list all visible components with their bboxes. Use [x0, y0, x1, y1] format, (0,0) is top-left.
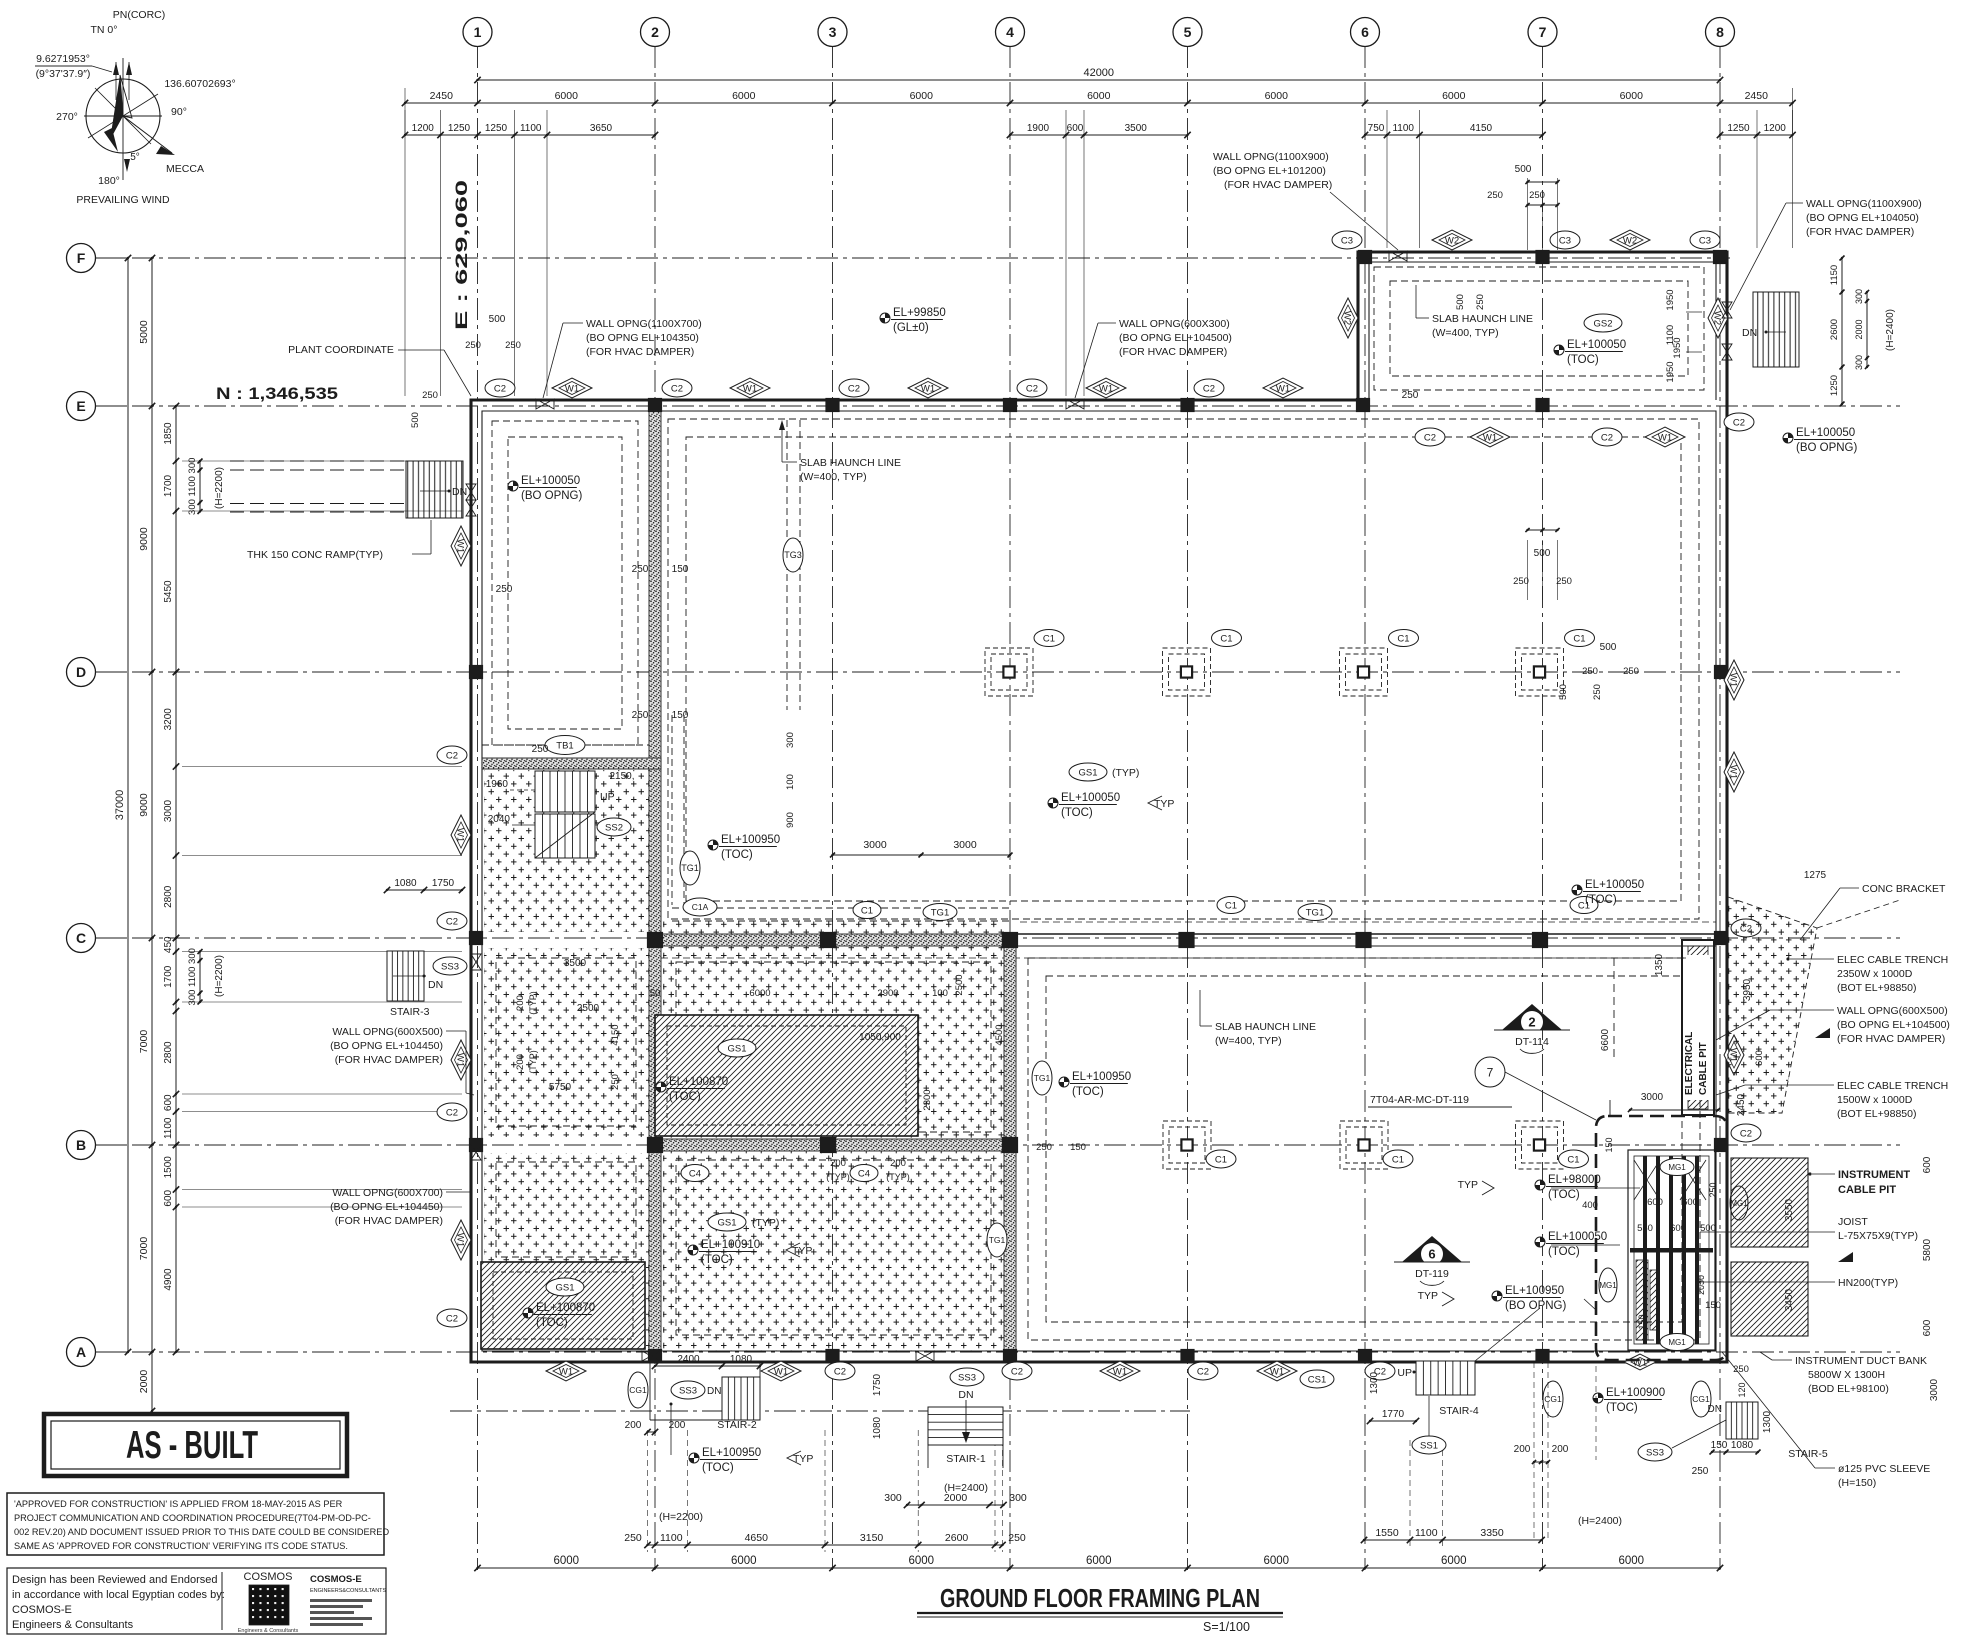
- bottom stair-1 dims 300 2000 300: [907, 1504, 1004, 1506]
- C2 and W1 labels bottom wall: [825, 1362, 855, 1380]
- svg-text:1100: 1100: [187, 476, 198, 496]
- EL+100050 TOC typ hall: [1048, 792, 1174, 819]
- instrument cable pit outline: [1596, 1116, 1727, 1360]
- svg-text:AS - BUILT: AS - BUILT: [126, 1424, 258, 1467]
- elec cable trench label 1: [1786, 954, 1948, 994]
- slab haunch outline GS2 room: [1374, 267, 1704, 390]
- slab haunch outline lower hall: [1028, 958, 1700, 1340]
- svg-text:90°: 90°: [171, 106, 187, 118]
- svg-text:EL+100050: EL+100050: [1567, 339, 1626, 351]
- wall columns GS2 room: [1359, 251, 1372, 264]
- svg-text:C1A: C1A: [692, 902, 709, 912]
- svg-text:100: 100: [785, 774, 796, 790]
- svg-text:150: 150: [672, 564, 689, 575]
- svg-text:DN: DN: [1742, 327, 1757, 339]
- svg-text:200: 200: [515, 1054, 526, 1070]
- svg-text:(TOC): (TOC): [1567, 354, 1599, 366]
- svg-text:1: 1: [474, 24, 482, 40]
- svg-text:DT-119: DT-119: [1415, 1268, 1449, 1280]
- svg-text:1100: 1100: [163, 1117, 174, 1139]
- svg-text:600: 600: [163, 1094, 174, 1111]
- EL+98000 TOC pit: [1458, 1174, 1640, 1210]
- svg-text:1750: 1750: [432, 878, 455, 889]
- EL+100050 TOC GS2 room: [1554, 345, 1564, 355]
- svg-text:600: 600: [1682, 1197, 1698, 1208]
- svg-text:300: 300: [187, 948, 198, 964]
- svg-text:C3: C3: [1559, 235, 1571, 246]
- svg-text:6000: 6000: [1442, 90, 1466, 102]
- svg-text:Design has been Reviewed and E: Design has been Reviewed and Endorsed: [12, 1574, 217, 1586]
- svg-text:600: 600: [1922, 1319, 1933, 1336]
- EL+100950 TOC bottom stair2: [670, 1403, 814, 1475]
- elec cable trench label 2: [1716, 1080, 1948, 1120]
- EL+100950 BO OPNG pit: [1418, 1285, 1596, 1312]
- svg-text:EL+100910: EL+100910: [701, 1239, 760, 1251]
- svg-text:(TYP): (TYP): [528, 991, 538, 1015]
- svg-text:SLAB HAUNCH LINE: SLAB HAUNCH LINE: [800, 457, 901, 469]
- svg-text:CABLE PIT: CABLE PIT: [1698, 1042, 1709, 1095]
- slab haunch outline left room: [492, 421, 638, 745]
- left sub-dimension chain B-A: [175, 1145, 177, 1352]
- C2 and W1 labels row E right: [1415, 428, 1445, 446]
- svg-text:150: 150: [1604, 1137, 1614, 1152]
- svg-text:200: 200: [1514, 1444, 1531, 1455]
- svg-text:300: 300: [785, 732, 796, 748]
- instrument pit right hatched blocks: [1731, 1158, 1808, 1336]
- svg-text:300: 300: [1854, 355, 1864, 370]
- svg-text:1900: 1900: [1027, 123, 1050, 134]
- svg-text:W2: W2: [1623, 235, 1637, 246]
- svg-text:TG1: TG1: [1034, 1073, 1051, 1083]
- svg-text:6000: 6000: [1265, 90, 1289, 102]
- svg-text:(TOC): (TOC): [1061, 807, 1093, 819]
- svg-text:(H=150): (H=150): [1838, 1477, 1876, 1489]
- svg-text:2450: 2450: [430, 90, 454, 102]
- svg-text:EL+100870: EL+100870: [536, 1302, 595, 1314]
- svg-text:2600: 2600: [1829, 319, 1840, 340]
- svg-text:B: B: [76, 1137, 86, 1153]
- svg-text:(BO OPNG EL+104050): (BO OPNG EL+104050): [1806, 212, 1919, 224]
- svg-text:6000: 6000: [749, 988, 770, 999]
- svg-text:250: 250: [496, 584, 513, 595]
- svg-text:TYP: TYP: [792, 1245, 812, 1257]
- svg-text:(TOC): (TOC): [702, 1462, 734, 1474]
- slab haunch line label GS2: [1416, 285, 1533, 339]
- svg-text:6000: 6000: [1441, 1555, 1467, 1567]
- internal wall on column 4: [1004, 944, 1016, 1351]
- svg-text:1200: 1200: [412, 123, 435, 134]
- svg-text:500: 500: [1558, 684, 1569, 700]
- svg-text:W1: W1: [455, 1053, 466, 1067]
- svg-text:1080: 1080: [394, 878, 417, 889]
- svg-text:250: 250: [1529, 190, 1545, 201]
- svg-text:(TOC): (TOC): [536, 1317, 568, 1329]
- svg-text:'APPROVED FOR CONSTRUCTION': 'APPROVED FOR CONSTRUCTION' IS APPLIED F…: [14, 1499, 343, 1509]
- svg-text:C: C: [76, 930, 86, 946]
- svg-text:150: 150: [1711, 1440, 1728, 1451]
- svg-text:SAME AS 'APPROVED FOR CONS: SAME AS 'APPROVED FOR CONSTRUCTION' VERI…: [14, 1541, 348, 1551]
- svg-text:450: 450: [163, 936, 174, 953]
- svg-text:W1: W1: [1270, 1366, 1284, 1377]
- svg-text:W1: W1: [455, 828, 466, 842]
- instrument pit MG1 labels: [1660, 1159, 1694, 1176]
- svg-text:250: 250: [1733, 1364, 1749, 1375]
- svg-text:THK 150 CONC RAMP(TYP): THK 150 CONC RAMP(TYP): [247, 549, 383, 561]
- svg-text:400: 400: [1582, 1200, 1598, 1211]
- svg-text:3200: 3200: [163, 708, 174, 731]
- svg-text:2: 2: [651, 24, 659, 40]
- top sub-dimension chain left: [405, 134, 655, 136]
- svg-text:DT-114: DT-114: [1515, 1036, 1549, 1048]
- svg-text:1950: 1950: [1672, 337, 1683, 358]
- svg-text:1100: 1100: [187, 967, 198, 987]
- svg-text:W2: W2: [1445, 235, 1459, 246]
- svg-text:1770: 1770: [1382, 1409, 1405, 1420]
- svg-text:(TOC): (TOC): [1606, 1402, 1638, 1414]
- svg-text:3: 3: [829, 24, 837, 40]
- drawing title: [917, 1583, 1283, 1634]
- svg-text:5450: 5450: [163, 580, 174, 603]
- svg-text:W1: W1: [565, 383, 579, 394]
- svg-text:C2: C2: [1026, 383, 1038, 394]
- svg-text:3000: 3000: [163, 799, 174, 822]
- svg-text:3000: 3000: [1929, 1378, 1940, 1401]
- EL+100050 BO OPNG left room: [508, 481, 518, 491]
- svg-text:SS2: SS2: [605, 822, 623, 833]
- svg-text:4500: 4500: [994, 1024, 1005, 1045]
- svg-text:600: 600: [1647, 1197, 1663, 1208]
- stair-3 exterior left: [384, 878, 467, 1018]
- svg-text:(BOT EL+98850): (BOT EL+98850): [1837, 1108, 1916, 1120]
- svg-text:5750: 5750: [549, 1082, 572, 1093]
- svg-text:250: 250: [1592, 684, 1603, 700]
- column grid bubbles 1-8: [463, 18, 1735, 47]
- svg-text:3000: 3000: [1641, 1092, 1664, 1103]
- svg-text:COSMOS-E: COSMOS-E: [12, 1604, 72, 1616]
- svg-text:200: 200: [625, 1420, 642, 1431]
- svg-text:(FOR HVAC DAMPER): (FOR HVAC DAMPER): [1806, 226, 1914, 238]
- svg-text:SS3: SS3: [958, 1372, 976, 1383]
- svg-text:002 REV.20) AND DOCUMENT I: 002 REV.20) AND DOCUMENT ISSUED PRIOR TO…: [14, 1527, 389, 1537]
- svg-text:7000: 7000: [138, 1237, 150, 1261]
- svg-text:W1: W1: [743, 383, 757, 394]
- svg-text:(9°37'37.9″): (9°37'37.9″): [36, 68, 91, 80]
- svg-text:C2: C2: [834, 1366, 846, 1377]
- svg-text:250: 250: [1708, 1182, 1718, 1197]
- svg-text:C4: C4: [858, 1168, 870, 1179]
- svg-text:DN: DN: [428, 979, 443, 991]
- svg-text:200: 200: [1552, 1444, 1569, 1455]
- TB1 beam dashed line: [482, 744, 661, 746]
- GS2 room inner wall line: [1369, 262, 1716, 400]
- svg-text:1200: 1200: [1764, 123, 1787, 134]
- svg-text:2050: 2050: [1696, 1275, 1706, 1295]
- svg-text:TYP: TYP: [793, 1453, 813, 1465]
- svg-text:500: 500: [1600, 642, 1617, 653]
- svg-text:EL+100050: EL+100050: [1796, 427, 1855, 439]
- svg-text:EL+100050: EL+100050: [1585, 879, 1644, 891]
- svg-text:GS1: GS1: [555, 1282, 574, 1293]
- svg-text:(TOC): (TOC): [701, 1254, 733, 1266]
- svg-text:250: 250: [532, 744, 549, 755]
- svg-text:4900: 4900: [163, 1268, 174, 1291]
- svg-text:2000: 2000: [138, 1370, 150, 1394]
- svg-text:CG1: CG1: [1544, 1394, 1562, 1404]
- building inner wall line: [482, 411, 1716, 1351]
- left sub-dimension chain D-C: [175, 672, 177, 938]
- svg-text:3150: 3150: [860, 1532, 884, 1544]
- svg-text:1300: 1300: [1369, 1371, 1380, 1394]
- svg-text:600: 600: [1922, 1156, 1933, 1173]
- stair-1 exterior bottom: [872, 1368, 1003, 1468]
- svg-text:MG1: MG1: [1599, 1281, 1617, 1290]
- wall columns left wall: [470, 666, 483, 679]
- concrete ramp top-left: [230, 461, 467, 518]
- stair-4 exterior bottom right: [1367, 1308, 1540, 1454]
- svg-text:TG1: TG1: [1306, 907, 1324, 918]
- svg-text:(H=2400): (H=2400): [944, 1482, 988, 1494]
- wall opng label far right 1100x900: [1730, 198, 1922, 310]
- svg-text:WALL OPNG(1100X900): WALL OPNG(1100X900): [1213, 151, 1329, 163]
- C1 labels row D: [1034, 630, 1064, 647]
- svg-text:W1: W1: [1728, 765, 1739, 779]
- svg-text:6600: 6600: [1600, 1028, 1611, 1051]
- svg-text:C1: C1: [861, 905, 873, 916]
- svg-text:2040: 2040: [488, 814, 511, 825]
- svg-text:2300: 2300: [922, 1089, 933, 1110]
- svg-text:WALL OPNG(1100X700): WALL OPNG(1100X700): [586, 318, 702, 330]
- svg-text:250: 250: [632, 564, 649, 575]
- svg-text:MECCA: MECCA: [166, 163, 204, 175]
- svg-text:300: 300: [884, 1492, 902, 1504]
- EL+100050 TOC pit: [1535, 1231, 1620, 1258]
- svg-text:W1: W1: [1658, 432, 1672, 443]
- svg-text:2450: 2450: [1736, 1093, 1747, 1116]
- plus-hatch floor area central: [663, 920, 1004, 1351]
- svg-text:JOIST: JOIST: [1838, 1216, 1868, 1228]
- svg-text:270°: 270°: [56, 111, 78, 123]
- svg-text:5000: 5000: [138, 320, 150, 344]
- svg-text:9.6271953°: 9.6271953°: [36, 53, 90, 65]
- svg-text:W1: W1: [559, 1366, 573, 1377]
- svg-text:5800W X 1300H: 5800W X 1300H: [1808, 1369, 1885, 1381]
- svg-text:(TYP): (TYP): [886, 1172, 910, 1182]
- dashed slab edges inside hatch: [496, 958, 636, 1126]
- svg-text:6000: 6000: [1618, 1555, 1644, 1567]
- svg-text:TG1: TG1: [989, 1235, 1006, 1245]
- svg-text:TYP: TYP: [1154, 798, 1174, 810]
- svg-text:E : 629,060: E : 629,060: [453, 180, 471, 330]
- left overall dimension 37000: [127, 258, 129, 1352]
- svg-text:5: 5: [1184, 24, 1192, 40]
- svg-text:(H=2400): (H=2400): [1578, 1515, 1622, 1527]
- svg-text:EL+100870: EL+100870: [669, 1076, 728, 1088]
- svg-text:1275: 1275: [1804, 870, 1827, 881]
- free columns C1 row B: [1163, 1121, 1211, 1169]
- svg-text:200: 200: [515, 995, 526, 1011]
- svg-text:DN: DN: [452, 486, 467, 498]
- svg-text:5800: 5800: [1922, 1238, 1933, 1261]
- svg-text:STAIR-1: STAIR-1: [946, 1453, 986, 1465]
- row C haunch dashed lines: [1020, 921, 1716, 923]
- svg-text:6000: 6000: [1086, 1555, 1112, 1567]
- misc interior dims: [410, 164, 1827, 1257]
- internal wall on column 2: [649, 411, 661, 1362]
- svg-text:2150,: 2150,: [609, 771, 634, 782]
- svg-text:600: 600: [163, 1189, 174, 1206]
- svg-text:SS3: SS3: [679, 1385, 697, 1396]
- svg-text:(BO OPNG EL+104350): (BO OPNG EL+104350): [586, 332, 699, 344]
- svg-text:1350: 1350: [1654, 953, 1665, 976]
- svg-text:C2: C2: [1203, 383, 1215, 394]
- detail callout 7T04-AR-MC-DT-119: [1368, 1057, 1596, 1120]
- svg-text:3950: 3950: [1742, 978, 1753, 1001]
- svg-text:37000: 37000: [114, 790, 126, 821]
- vertical grid lines columns 1-8: [478, 46, 1721, 1570]
- svg-text:C2: C2: [1740, 1128, 1752, 1139]
- EL+100950 TOC near SS2: [708, 840, 718, 850]
- svg-text:UP: UP: [1397, 1367, 1412, 1379]
- svg-text:C3: C3: [1341, 235, 1353, 246]
- GS1 slab panel lower-left (hatched): [481, 1262, 645, 1349]
- svg-text:2800: 2800: [163, 885, 174, 908]
- wall opng label top left: [543, 318, 702, 398]
- svg-text:ELECTRICAL: ELECTRICAL: [1684, 1032, 1695, 1095]
- svg-text:750: 750: [1368, 123, 1385, 134]
- internal wall under TB1: [482, 758, 661, 769]
- svg-text:E: E: [76, 398, 85, 414]
- svg-text:2600: 2600: [945, 1532, 969, 1544]
- horizontal beam TG1 dashed row: [672, 907, 1010, 909]
- svg-text:6: 6: [1428, 1247, 1435, 1262]
- instrument pit joists: [1630, 1156, 1713, 1344]
- svg-text:W1: W1: [1113, 1366, 1127, 1377]
- svg-text:1250: 1250: [1829, 375, 1840, 396]
- internal wall row C: [649, 934, 1016, 946]
- svg-text:WALL OPNG(600X300): WALL OPNG(600X300): [1119, 318, 1230, 330]
- svg-text:C1: C1: [1567, 1154, 1579, 1165]
- svg-text:MG1: MG1: [1668, 1163, 1686, 1172]
- svg-text:A: A: [76, 1344, 86, 1360]
- svg-text:(TOC): (TOC): [1585, 894, 1617, 906]
- svg-text:TG3: TG3: [784, 550, 802, 560]
- C2 and W labels right wall: [1731, 919, 1761, 937]
- svg-text:ENGINEERS&CONSULTANTS: ENGINEERS&CONSULTANTS: [310, 1588, 387, 1594]
- svg-text:250: 250: [632, 710, 649, 721]
- svg-text:180°: 180°: [98, 175, 120, 187]
- EL+100050 TOC top right: [1572, 885, 1582, 895]
- svg-text:(BO OPNG): (BO OPNG): [521, 490, 583, 502]
- wall opng label top right 1100x900: [1213, 151, 1398, 250]
- pvc sleeve label: [1722, 1352, 1930, 1489]
- svg-text:42000: 42000: [1083, 67, 1114, 79]
- svg-text:DN: DN: [958, 1389, 973, 1401]
- svg-text:(W=400, TYP): (W=400, TYP): [1432, 327, 1499, 339]
- svg-text:(H=2400): (H=2400): [1885, 309, 1896, 351]
- svg-text:W1: W1: [1728, 673, 1739, 687]
- svg-text:550: 550: [1637, 1223, 1653, 1234]
- pit leader route dashed: [1580, 953, 1665, 1145]
- svg-text:C2: C2: [446, 1313, 458, 1324]
- svg-text:1080: 1080: [872, 1416, 883, 1439]
- bottom dimension witness lines: [648, 1430, 1443, 1552]
- svg-text:WALL OPNG(600X500): WALL OPNG(600X500): [332, 1026, 443, 1038]
- svg-text:(BO OPNG EL+104450): (BO OPNG EL+104450): [330, 1040, 443, 1052]
- top sub-dimension chain far right: [1720, 134, 1793, 136]
- svg-text:COSMOS-E: COSMOS-E: [310, 1574, 362, 1585]
- svg-text:600: 600: [1670, 1223, 1686, 1234]
- svg-text:TYP: TYP: [1418, 1290, 1438, 1302]
- svg-text:1700: 1700: [163, 474, 174, 497]
- svg-text:1700: 1700: [163, 965, 174, 988]
- svg-text:ELEC CABLE TRENCH: ELEC CABLE TRENCH: [1837, 954, 1948, 966]
- left stair-3 detail dims: [199, 952, 201, 1003]
- svg-text:(H=2200): (H=2200): [214, 955, 225, 997]
- svg-text:250: 250: [1556, 576, 1572, 587]
- svg-text:(W=400, TYP): (W=400, TYP): [800, 471, 867, 483]
- svg-text:1950: 1950: [1665, 289, 1676, 310]
- svg-text:C2: C2: [671, 383, 683, 394]
- wall opng label right 600x500: [1716, 1005, 1950, 1045]
- svg-text:in accordance with local Egypt: in accordance with local Egyptian codes …: [12, 1589, 225, 1601]
- svg-text:C2: C2: [446, 750, 458, 761]
- svg-text:136.60702693°: 136.60702693°: [164, 78, 235, 90]
- svg-text:SS1: SS1: [1420, 1440, 1438, 1451]
- svg-text:C3: C3: [1699, 235, 1711, 246]
- svg-text:3500: 3500: [1125, 123, 1148, 134]
- svg-text:1500: 1500: [163, 1156, 174, 1179]
- svg-text:INSTRUMENT: INSTRUMENT: [1838, 1169, 1910, 1181]
- AS-BUILT stamp box: [44, 1414, 347, 1476]
- svg-text:600: 600: [1754, 1050, 1765, 1066]
- svg-text:1050,900: 1050,900: [859, 1032, 901, 1043]
- svg-text:250: 250: [1475, 294, 1486, 310]
- svg-text:(H=2200): (H=2200): [659, 1511, 703, 1523]
- svg-text:6000: 6000: [1263, 1555, 1289, 1567]
- svg-text:1080: 1080: [730, 1354, 753, 1365]
- svg-text:EL+100950: EL+100950: [721, 834, 780, 846]
- left sub-dimension chain C-B: [175, 938, 177, 1145]
- svg-text:100: 100: [932, 988, 948, 999]
- instrument duct bank label: [1760, 1352, 1927, 1395]
- svg-text:W1: W1: [1099, 383, 1113, 394]
- svg-text:50: 50: [650, 988, 661, 999]
- svg-text:F: F: [77, 250, 86, 266]
- svg-text:WALL OPNG(600X500): WALL OPNG(600X500): [1837, 1005, 1948, 1017]
- plus-hatch floor area left middle: [484, 948, 649, 1137]
- GS2 slab label: [1584, 314, 1622, 332]
- svg-text:WALL OPNG(1100X900): WALL OPNG(1100X900): [1806, 198, 1922, 210]
- svg-text:STAIR-3: STAIR-3: [390, 1006, 430, 1018]
- svg-text:6000: 6000: [908, 1555, 934, 1567]
- svg-text:(FOR HVAC DAMPER): (FOR HVAC DAMPER): [335, 1215, 443, 1227]
- svg-text:250: 250: [1008, 1532, 1026, 1544]
- EL+100050 BO OPNG right: [1783, 433, 1793, 443]
- svg-text:DN: DN: [1708, 1404, 1722, 1415]
- svg-text:C2: C2: [1733, 417, 1745, 428]
- plus-hatch floor area left upper: [484, 770, 649, 932]
- svg-text:STAIR-5: STAIR-5: [1788, 1448, 1828, 1460]
- svg-text:6000: 6000: [732, 90, 756, 102]
- svg-text:4150: 4150: [1470, 123, 1493, 134]
- svg-text:GS1: GS1: [717, 1217, 736, 1228]
- wall columns right wall: [1715, 666, 1728, 679]
- svg-text:1100: 1100: [520, 123, 542, 134]
- top sub-dimension chain middle: [1010, 134, 1188, 136]
- svg-text:3350: 3350: [1480, 1527, 1504, 1539]
- svg-text:1850: 1850: [163, 422, 174, 445]
- svg-text:2400: 2400: [677, 1354, 700, 1365]
